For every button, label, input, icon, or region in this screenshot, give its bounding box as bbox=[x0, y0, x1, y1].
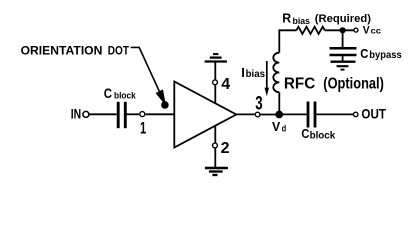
ground (top, pin 4) bbox=[205, 54, 227, 61]
svg-text:C: C bbox=[104, 86, 113, 101]
svg-text:C: C bbox=[360, 46, 369, 61]
label Rbias (Required) bbox=[282, 10, 371, 26]
capacitor Cblock (input) right plate bbox=[124, 102, 127, 128]
label Ibias bbox=[241, 65, 265, 80]
label Vcc bbox=[363, 25, 382, 37]
capacitor Cblock (output) right plate bbox=[314, 102, 317, 128]
capacitor Cbypass bottom plate bbox=[330, 54, 357, 56]
resistor Rbias zigzag bbox=[296, 27, 324, 34]
ground (bottom, pin 2) bbox=[205, 168, 228, 175]
wire pin 1 to amplifier bbox=[146, 113, 175, 115]
output terminal circle bbox=[353, 112, 358, 117]
svg-text:block: block bbox=[114, 91, 136, 102]
wire pin 3 to node Vd bbox=[260, 114, 279, 116]
svg-text:(Required): (Required) bbox=[315, 13, 371, 25]
svg-text:OUT: OUT bbox=[361, 106, 386, 122]
node Vd bbox=[275, 111, 283, 119]
svg-text:bias: bias bbox=[246, 69, 266, 80]
pin 4 circle bbox=[213, 80, 218, 85]
orientation dot on package bbox=[161, 101, 169, 109]
svg-text:(Optional): (Optional) bbox=[323, 75, 384, 92]
Ibias arrow bbox=[266, 61, 268, 90]
svg-text:block: block bbox=[310, 131, 336, 142]
junction node at Vcc branch bbox=[340, 27, 346, 33]
svg-text:d: d bbox=[282, 123, 287, 133]
label RFC (Optional) bbox=[284, 75, 384, 92]
svg-text:bias: bias bbox=[293, 16, 311, 26]
wire Vd up to RFC coil bbox=[278, 92, 280, 114]
capacitor Cbypass top plate bbox=[330, 47, 357, 50]
capacitor Cblock (input) left plate bbox=[117, 102, 120, 128]
svg-text:DOT: DOT bbox=[108, 46, 129, 58]
wire Cblock to pin 1 bbox=[126, 113, 139, 115]
wire amp output to pin 3 bbox=[236, 113, 255, 115]
inductor RFC coil bbox=[273, 53, 279, 93]
svg-text:2: 2 bbox=[221, 140, 230, 157]
wire Rbias to Vcc terminal bbox=[325, 29, 354, 31]
leader arrowhead bbox=[156, 90, 165, 104]
capacitor Cblock (output) left plate bbox=[307, 102, 310, 128]
input terminal circle bbox=[83, 111, 89, 117]
pin 2 wire bbox=[214, 125, 216, 167]
svg-text:I: I bbox=[241, 65, 245, 80]
Vcc terminal circle bbox=[354, 28, 358, 32]
svg-text:V: V bbox=[272, 120, 281, 134]
wire Cblock to OUT terminal bbox=[317, 113, 354, 115]
wire Cbypass to ground bbox=[342, 56, 344, 60]
svg-text:3: 3 bbox=[255, 94, 262, 115]
svg-text:V: V bbox=[363, 25, 371, 37]
ground (Cbypass) bbox=[331, 62, 356, 70]
svg-text:4: 4 bbox=[221, 76, 230, 93]
pin 1 circle bbox=[140, 112, 145, 117]
svg-text:bypass: bypass bbox=[369, 50, 402, 61]
label Cblock (input) bbox=[104, 86, 137, 102]
pin 3 circle bbox=[255, 112, 260, 117]
svg-text:R: R bbox=[282, 10, 291, 25]
svg-text:IN: IN bbox=[71, 106, 81, 122]
wire node Vd to Cblock (output) bbox=[279, 113, 306, 115]
leader line to orientation dot bbox=[131, 47, 161, 94]
label Cblock (output) bbox=[301, 126, 335, 142]
op-amp U1 triangle bbox=[174, 82, 236, 148]
label ORIENTATION DOT bbox=[21, 46, 129, 58]
label Cbypass bbox=[360, 46, 402, 61]
svg-text:1: 1 bbox=[140, 120, 146, 138]
label Vd bbox=[272, 120, 286, 134]
wire IN terminal to Cblock bbox=[90, 113, 117, 115]
svg-text:cc: cc bbox=[371, 27, 382, 36]
svg-text:RFC: RFC bbox=[284, 75, 315, 92]
wire RFC coil up to corner and over to Rbias bbox=[279, 30, 296, 52]
pin 4 wire bbox=[214, 62, 216, 104]
wire node down to Cbypass bbox=[342, 30, 344, 47]
pin 2 circle bbox=[213, 143, 218, 148]
svg-text:ORIENTATION: ORIENTATION bbox=[21, 46, 103, 58]
